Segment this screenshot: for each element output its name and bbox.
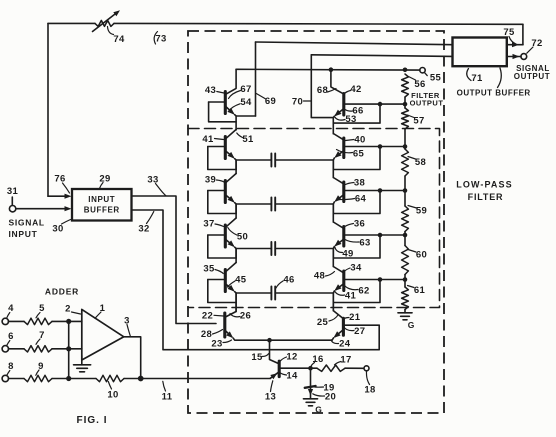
svg-text:49: 49 [342, 248, 353, 259]
svg-text:LOW-PASS: LOW-PASS [456, 180, 512, 190]
wire 70 (emitter riser to wire2) [311, 55, 333, 118]
svg-text:42: 42 [350, 84, 361, 95]
resistor 17 [317, 365, 345, 371]
svg-text:69: 69 [265, 96, 276, 107]
row1 right transistor bar [342, 138, 345, 158]
row4 left base wire [208, 279, 226, 281]
variable resistor 74 [95, 20, 114, 26]
svg-text:70: 70 [292, 96, 303, 107]
svg-text:23: 23 [211, 338, 222, 349]
wire (collector bus) [236, 68, 420, 71]
resistor 58 [402, 149, 409, 176]
svg-text:13: 13 [265, 391, 276, 402]
svg-text:73: 73 [155, 33, 166, 44]
row1 right emitter [336, 151, 344, 157]
row2 right emitter node [333, 202, 334, 214]
svg-text:SIGNAL: SIGNAL [9, 218, 45, 228]
row1 right emitter node [333, 158, 334, 170]
svg-text:54: 54 [240, 97, 252, 108]
Q54 base wire [209, 101, 226, 103]
junction [66, 319, 71, 324]
svg-text:25: 25 [317, 317, 329, 328]
svg-text:50: 50 [237, 231, 248, 242]
resistor 61 [402, 287, 409, 310]
row1 left collector [226, 130, 236, 139]
wire (left spine above row4) [235, 249, 237, 263]
row4 capacitor plates [236, 292, 271, 294]
junction row1 base loop [378, 144, 383, 149]
wire (left spine row4->Q22) [235, 293, 237, 312]
svg-text:OUTPUT: OUTPUT [410, 98, 444, 107]
row3 right collector [333, 222, 343, 228]
resistor 9 [9, 378, 25, 380]
node FILTER OUTPUT [403, 102, 408, 107]
junction (bus / resistor rail) [403, 68, 408, 73]
wire signal input [16, 208, 65, 210]
wire rail [404, 129, 406, 149]
row4 left collector [226, 263, 236, 272]
svg-text:41: 41 [202, 134, 214, 145]
wire into input buffer (node 76) [48, 195, 65, 197]
wire (Q54 emitter to output buffer) [256, 42, 453, 45]
wire (right spine above row2) [332, 160, 334, 178]
row1 right collector [333, 134, 343, 140]
svg-text:60: 60 [416, 249, 427, 260]
row3 right emitter node [333, 246, 334, 258]
Q12 collector [270, 340, 279, 363]
svg-text:57: 57 [413, 115, 424, 126]
resistor 10 (feedback) [69, 378, 96, 380]
svg-text:10: 10 [107, 389, 118, 400]
transistor Q24 bar [342, 318, 345, 335]
junction row4 base loop [378, 277, 383, 282]
Q54 emitter [226, 107, 234, 114]
resistor 57 [402, 108, 409, 129]
resistor 60 [402, 246, 409, 275]
svg-text:39: 39 [205, 174, 216, 185]
row1 left emitter [226, 151, 234, 157]
row3 left loop [208, 235, 236, 258]
svg-text:31: 31 [7, 186, 19, 197]
svg-text:30: 30 [52, 223, 63, 234]
svg-text:17: 17 [340, 354, 351, 365]
row4 left loop [208, 280, 236, 303]
row3 left transistor bar [224, 225, 227, 247]
Q12 emitter (PNP) [270, 372, 278, 378]
wire 33 (buffer to Q22 base) [132, 196, 217, 324]
row4 right base wire [344, 279, 405, 281]
svg-text:74: 74 [113, 34, 125, 45]
op-amp output wire [124, 337, 141, 379]
inner dashed box (filter core) [188, 129, 440, 308]
svg-text:36: 36 [354, 218, 365, 229]
row2 left transistor bar [224, 181, 227, 203]
svg-text:11: 11 [162, 391, 173, 402]
svg-text:45: 45 [235, 274, 247, 285]
junction (Q42 base loop) [378, 102, 383, 107]
svg-text:58: 58 [415, 157, 426, 168]
Q42 emitter [336, 109, 344, 115]
svg-text:71: 71 [471, 73, 483, 84]
svg-text:32: 32 [138, 223, 149, 234]
row2 right collector [333, 178, 343, 184]
svg-text:59: 59 [416, 205, 427, 216]
transistor Q19 bar [305, 386, 316, 388]
svg-text:64: 64 [355, 193, 367, 204]
svg-text:15: 15 [251, 352, 263, 363]
wire (left spine above row2) [235, 160, 237, 174]
resistor 56 [402, 74, 409, 97]
row2 left emitter [226, 195, 234, 201]
wire (right spine above row4) [332, 249, 334, 267]
ground (op-amp) [81, 356, 83, 365]
svg-text:29: 29 [99, 173, 110, 184]
svg-text:OUTPUT BUFFER: OUTPUT BUFFER [457, 89, 531, 98]
junction [66, 346, 71, 351]
row3 right transistor bar [342, 227, 345, 247]
Q54 base-emitter loop [209, 102, 237, 122]
row3 left collector [226, 218, 236, 227]
wire (left feedback drop) [47, 23, 49, 196]
terminal 55 (filter output tap) [420, 68, 425, 73]
terminal 31 (signal input) [9, 206, 15, 212]
svg-text:22: 22 [202, 311, 213, 322]
terminal 4 [2, 318, 8, 324]
svg-text:46: 46 [283, 274, 294, 285]
row2 right base wire [344, 190, 405, 192]
wire 32 (buffer to Q24 base) [132, 210, 380, 350]
svg-text:68: 68 [317, 85, 328, 96]
junction row1 rail [403, 144, 408, 149]
ground (Q20) [304, 398, 318, 400]
transistor Q22 bar [223, 313, 226, 337]
wire rail [404, 232, 406, 246]
output buffer block 71 [453, 38, 507, 67]
wire to signal output [507, 56, 521, 58]
row3 left base wire [208, 234, 226, 236]
row1 left base wire [208, 146, 226, 148]
svg-text:33: 33 [147, 174, 158, 185]
junction row3 rail [403, 233, 408, 238]
row3 right base wire [344, 234, 405, 236]
wire (left spine Q54->row1) [235, 129, 237, 131]
wire (node 16 to Q19) [310, 368, 312, 398]
svg-text:61: 61 [414, 285, 426, 296]
Q12 base wire [279, 367, 310, 369]
row2 right transistor bar [342, 182, 345, 202]
svg-text:4: 4 [8, 303, 14, 314]
terminal 8 [2, 375, 8, 381]
wire rail to ground [404, 310, 406, 313]
svg-text:27: 27 [354, 326, 365, 337]
Q54 emitter node wires [235, 115, 237, 130]
row4 right collector [333, 267, 343, 273]
row4 right loop [333, 280, 380, 303]
row1 right base wire [344, 146, 405, 148]
svg-text:48: 48 [314, 270, 325, 281]
wire 73 (top feedback line) [48, 22, 95, 24]
resistor 5 [9, 320, 25, 322]
Q42 base-emitter loop [333, 104, 380, 123]
wire (left spine above row3) [235, 204, 237, 218]
row3 left emitter [226, 240, 234, 246]
wire rail [404, 275, 406, 288]
junction row3 base loop [378, 233, 383, 238]
wire rail [404, 176, 406, 206]
input buffer block 29 [72, 189, 132, 221]
junction node 16 [308, 366, 313, 371]
svg-text:37: 37 [203, 218, 214, 229]
junction (emitter bus / Q12 collector) [267, 338, 272, 343]
low-pass filter boundary (dashed box) [188, 31, 444, 413]
terminal 6 [2, 346, 8, 352]
junction [66, 376, 71, 381]
row4 right transistor bar [342, 271, 345, 291]
svg-text:FIG. I: FIG. I [77, 415, 108, 426]
resistor 7 [9, 348, 25, 350]
row3 left emitter node [235, 247, 237, 258]
row1 right loop [333, 147, 380, 170]
wire (Q42 emitter to output buffer) [311, 55, 452, 57]
row3 right emitter [336, 240, 344, 246]
wire to op-amp [69, 320, 82, 322]
row4 left transistor bar [224, 270, 227, 292]
Q42 collector [331, 70, 344, 94]
row2 capacitor plates [236, 203, 271, 205]
row2 left emitter node [235, 203, 237, 214]
terminal 18 [364, 366, 369, 371]
row2 right loop [333, 191, 380, 214]
svg-text:8: 8 [8, 361, 14, 372]
svg-text:G: G [408, 320, 415, 330]
svg-text:53: 53 [345, 114, 356, 125]
row4 left emitter node [235, 292, 237, 303]
Q19 emitter arrow [308, 389, 313, 396]
row2 right emitter [336, 195, 344, 201]
row4 left emitter [226, 284, 234, 290]
wire (right spine above row3) [332, 204, 334, 222]
wire 75 (buffer output feedback) [507, 44, 523, 46]
Q22 collector [225, 303, 236, 318]
row1 left transistor bar [224, 137, 227, 159]
svg-text:INPUT: INPUT [9, 229, 38, 239]
terminal 72 (signal output) [521, 54, 527, 60]
svg-text:ADDER: ADDER [45, 287, 79, 297]
junction row2 base loop [378, 188, 383, 193]
svg-text:51: 51 [242, 134, 254, 145]
junction (node 11) [138, 376, 144, 382]
row2 left collector [226, 174, 236, 183]
row1 left loop [208, 147, 236, 170]
svg-text:24: 24 [339, 339, 351, 350]
Q22 emitter [225, 331, 232, 337]
wire (right spine row4->Q24) [332, 293, 334, 311]
svg-text:55: 55 [430, 72, 442, 83]
row3 capacitor plates [236, 248, 271, 250]
svg-text:76: 76 [54, 173, 65, 184]
Q24 emitter [335, 330, 343, 337]
svg-text:56: 56 [414, 79, 425, 90]
svg-text:67: 67 [240, 84, 251, 95]
op-amp 1 (adder amplifier) [82, 309, 124, 360]
Q42 base wire [344, 103, 405, 105]
row3 right loop [333, 235, 380, 258]
svg-text:6: 6 [8, 331, 14, 342]
wire (Q22/Q24 emitter bus) [233, 338, 332, 340]
transistor Q42 bar [342, 94, 345, 116]
wire 69 (emitter riser) [255, 42, 257, 116]
wire 11 (adder output to Q12) [141, 378, 271, 380]
Q42 emitter node [332, 116, 335, 133]
svg-text:38: 38 [354, 177, 365, 188]
svg-text:OUTPUT: OUTPUT [514, 72, 551, 81]
resistor 59 [402, 206, 409, 232]
svg-text:62: 62 [358, 285, 369, 296]
row1 left emitter node [235, 159, 237, 170]
row1 capacitor plates [236, 159, 271, 161]
svg-text:65: 65 [353, 148, 365, 159]
svg-text:26: 26 [240, 310, 251, 321]
row4 right emitter node [333, 291, 334, 303]
svg-text:35: 35 [203, 263, 215, 274]
row2 left loop [208, 191, 236, 214]
svg-text:40: 40 [354, 134, 365, 145]
svg-text:20: 20 [325, 391, 336, 402]
Q24 collector [333, 303, 343, 319]
svg-text:21: 21 [349, 312, 361, 323]
transistor Q12 bar [278, 361, 281, 376]
svg-text:63: 63 [359, 237, 370, 248]
wire (summing node) [68, 321, 70, 378]
svg-text:34: 34 [350, 262, 362, 273]
junction (bus / Q42 collector) [329, 67, 334, 72]
svg-text:41: 41 [345, 290, 357, 301]
svg-text:2: 2 [65, 303, 71, 314]
junction row4 rail [403, 277, 408, 282]
svg-text:BUFFER: BUFFER [84, 206, 120, 215]
svg-text:18: 18 [364, 384, 375, 395]
svg-text:FILTER: FILTER [468, 192, 504, 202]
ground (resistor rail) [398, 312, 412, 314]
svg-text:14: 14 [286, 370, 298, 381]
transistor Q54 bar (43) [224, 92, 227, 114]
Q24 base wire [343, 324, 379, 326]
svg-text:INPUT: INPUT [88, 195, 115, 204]
row2 left base wire [208, 190, 226, 192]
svg-text:43: 43 [205, 85, 216, 96]
junction row2 rail [403, 188, 408, 193]
row4 right emitter [336, 284, 344, 290]
svg-text:12: 12 [286, 351, 297, 362]
svg-text:G: G [315, 405, 322, 415]
Q54 collector [226, 69, 236, 94]
